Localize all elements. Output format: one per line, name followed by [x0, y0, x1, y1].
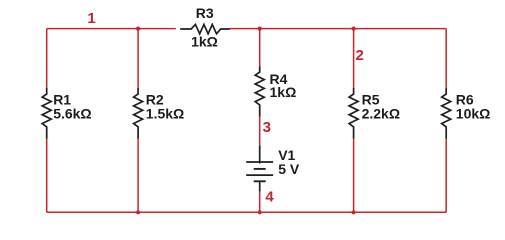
svg-text:1: 1 [87, 10, 95, 27]
svg-text:2: 2 [356, 47, 364, 64]
svg-text:1.5kΩ: 1.5kΩ [146, 106, 184, 122]
svg-text:2.2kΩ: 2.2kΩ [362, 106, 400, 122]
svg-text:1kΩ: 1kΩ [270, 84, 297, 100]
svg-text:1kΩ: 1kΩ [191, 33, 218, 49]
svg-text:5 V: 5 V [278, 161, 300, 177]
svg-text:10kΩ: 10kΩ [456, 106, 491, 122]
svg-text:R3: R3 [196, 5, 214, 21]
svg-text:3: 3 [263, 119, 271, 136]
svg-text:5.6kΩ: 5.6kΩ [53, 106, 91, 122]
svg-text:4: 4 [265, 189, 274, 206]
